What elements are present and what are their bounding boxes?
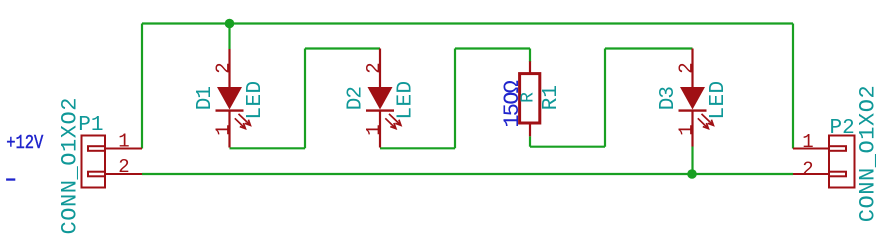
svg-text:CONN_O1XO2: CONN_O1XO2 <box>58 97 83 235</box>
svg-text:D2: D2 <box>345 87 368 111</box>
svg-text:1: 1 <box>213 124 235 135</box>
wire: from R1 pin 2 down to bottom run <box>529 136 531 146</box>
wire: top bus from left riser to right riser <box>142 22 793 24</box>
LED D2 <box>366 49 401 148</box>
wire: riser 3 up between R1 and D3 <box>604 49 606 147</box>
connector P1 <box>82 136 143 188</box>
wire: left riser from top bus down to P1 pin 1 <box>141 24 143 149</box>
wire: R1 bottom run right at y=147 <box>530 146 605 148</box>
svg-text:LED: LED <box>244 80 267 119</box>
junction: top bus at D1 anode <box>225 19 235 29</box>
svg-text:D3: D3 <box>657 87 680 111</box>
svg-text:D1: D1 <box>194 87 217 111</box>
wire: D1 cathode run right at y=148 <box>230 147 306 149</box>
svg-text:2: 2 <box>118 156 129 178</box>
wire: run right to R1 top <box>455 47 530 49</box>
svg-text:2: 2 <box>213 62 235 73</box>
junction: bottom bus at D3 cathode <box>687 169 697 179</box>
wire: riser 1 up between D1 and D2 <box>304 49 306 149</box>
LED D3 <box>679 49 714 147</box>
svg-text:P2: P2 <box>830 117 855 140</box>
svg-text:2: 2 <box>363 62 385 73</box>
svg-text:1: 1 <box>363 124 385 135</box>
svg-text:2: 2 <box>802 159 813 181</box>
wire: right riser from top bus down to P2 pin 1 <box>792 24 794 149</box>
wire: D3 cathode drop to bottom bus <box>691 147 693 175</box>
wire: D1 anode stub from junction down to D1 pin 2 <box>228 24 230 50</box>
label minus net name <box>6 178 15 180</box>
svg-text:CONN_O1XO2: CONN_O1XO2 <box>856 85 881 223</box>
wire: run right to D3 anode <box>605 47 693 49</box>
wire: bottom bus from P1 pin 2 to P2 pin 2 <box>142 173 793 175</box>
resistor R1 <box>520 61 540 136</box>
svg-text:+12V: +12V <box>6 132 43 154</box>
wire: D2 cathode run right at y=148 <box>380 147 455 149</box>
svg-text:1: 1 <box>802 131 813 153</box>
LED D1 <box>216 49 251 148</box>
wire: drop from run to R1 pin 1 <box>529 49 531 63</box>
svg-text:1: 1 <box>676 124 698 135</box>
svg-text:R1: R1 <box>540 85 563 110</box>
svg-text:1: 1 <box>118 131 129 153</box>
wire: run right to D2 anode <box>305 47 380 49</box>
svg-text:15OΩ: 15OΩ <box>500 80 525 127</box>
svg-text:LED: LED <box>394 80 417 119</box>
connector P2 <box>793 136 855 188</box>
svg-text:2: 2 <box>676 62 698 73</box>
wire: riser 2 up between D2 and R1 <box>454 49 456 149</box>
svg-text:LED: LED <box>707 80 730 119</box>
